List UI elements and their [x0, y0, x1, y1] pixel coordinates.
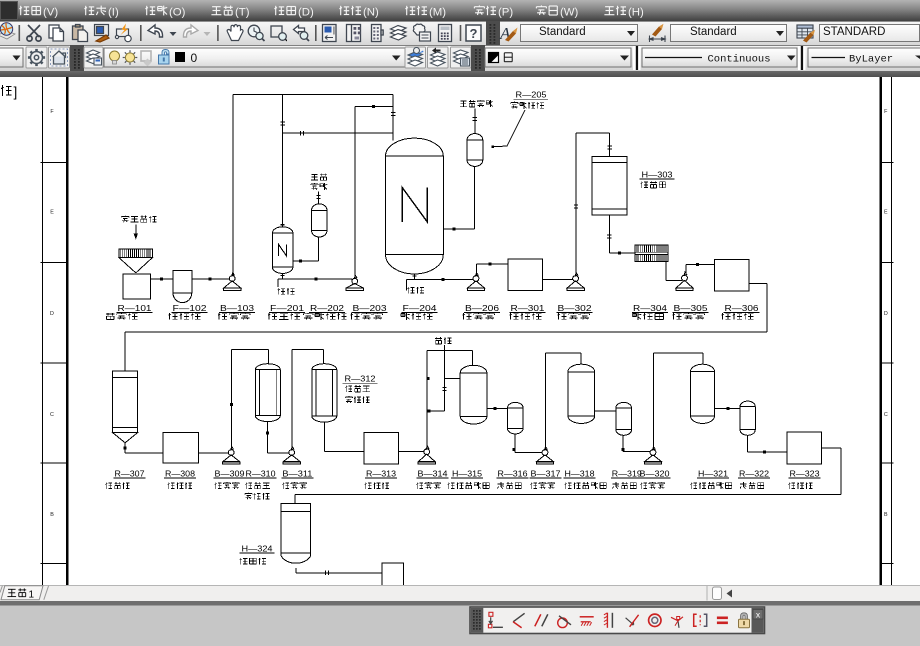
wire F-201 bottom outlet — [282, 273, 284, 278]
svg-text:B—311: B—311 — [282, 468, 312, 478]
wire R-202 outlet to F-201 — [318, 237, 320, 261]
svg-text:R—202: R—202 — [310, 303, 344, 313]
pump B-305 — [682, 275, 688, 281]
svg-text:(D): (D) — [298, 6, 314, 18]
svg-text:ByLayer: ByLayer — [849, 54, 893, 66]
svg-text:?: ? — [470, 26, 478, 41]
svg-text:(M): (M) — [429, 6, 446, 18]
combo STANDARD (table style) — [819, 24, 920, 42]
combo Standard (dim style) — [670, 24, 787, 42]
wire B-314 riser to H-315 — [426, 350, 428, 449]
svg-text:R—323: R—323 — [790, 468, 820, 478]
vessel R-313 (storage tank) — [364, 433, 399, 465]
constraint icon symmetric-brackets — [694, 614, 707, 626]
svg-text:E: E — [50, 209, 54, 215]
document title remnant 框] — [1, 85, 3, 96]
svg-text:B—203: B—203 — [353, 303, 387, 313]
vessel R-205 (air storage tank) — [467, 134, 483, 167]
wire R-323 long line down to H-324 — [822, 447, 841, 449]
standard toolbar row — [0, 21, 920, 45]
separator R-322 — [740, 401, 755, 435]
wire B-203 riser — [354, 106, 356, 278]
pump B-203 — [352, 278, 358, 284]
combo Standard (text style) — [520, 24, 638, 42]
svg-text:D: D — [50, 311, 54, 317]
constraint icon tangent — [558, 616, 571, 628]
hopper hatched band — [119, 249, 153, 258]
vessel R-308 (storage tank) — [163, 433, 199, 463]
svg-text:(V): (V) — [43, 6, 58, 18]
svg-text:R—304: R—304 — [633, 303, 667, 313]
svg-text:R—312: R—312 — [345, 374, 376, 384]
vessel R-323 (storage tank) — [787, 432, 822, 464]
pump B-302 — [573, 276, 579, 282]
zone divider line row 2 — [41, 262, 68, 264]
wire F-201 blowdown 排污 — [278, 278, 283, 280]
evaporator H-318 (falling film evaporator) — [568, 364, 595, 423]
layers / properties toolbar row — [0, 45, 920, 71]
svg-text:R—307: R—307 — [115, 468, 145, 478]
steam label 蒸汽 — [435, 337, 442, 339]
pump B-314 — [424, 449, 430, 455]
svg-text:R—316: R—316 — [498, 468, 528, 478]
svg-text:R—205: R—205 — [516, 90, 547, 100]
wire R-304 outlet to B-305 — [665, 262, 667, 281]
pump B-206 — [473, 276, 479, 282]
wire R-313 to B-314 — [399, 451, 424, 453]
svg-text:]: ] — [14, 85, 18, 100]
wire F-204 to B-206 — [415, 279, 474, 281]
drawing frame left thick border line — [66, 77, 69, 585]
svg-text:Continuous: Continuous — [708, 54, 771, 66]
constraint icon parallel — [535, 614, 548, 626]
crystallizer H-324 — [281, 504, 310, 554]
drawing frame right thin border line — [890, 77, 892, 585]
zone divider line row 5 — [41, 563, 68, 565]
wire drop into F-204 top — [392, 95, 394, 141]
svg-text:H—318: H—318 — [565, 468, 595, 478]
svg-text:H—303: H—303 — [642, 169, 673, 179]
svg-text:H—321: H—321 — [698, 468, 728, 478]
filter R-304 — [635, 245, 668, 261]
wire B-103 riser — [232, 95, 234, 276]
pump B-317 — [542, 450, 548, 456]
wire overhead line A — [233, 94, 393, 96]
wire B-311 riser to R-312 — [291, 350, 293, 450]
wire F-201 to B-203 — [283, 278, 353, 280]
layout tab 布局1 — [1, 586, 43, 600]
svg-text:E: E — [884, 209, 888, 215]
wire R-310 outlet to B-311 — [267, 422, 269, 453]
constraint icon equal — [717, 617, 728, 625]
constraint icon coincident — [488, 612, 503, 628]
wire into H-303 top — [609, 133, 611, 156]
separator R-319 — [616, 402, 632, 435]
product box — [382, 563, 403, 586]
hopper funnel — [119, 258, 153, 273]
svg-text:H—315: H—315 — [452, 468, 482, 478]
wire R-306 long return line to R-307 — [749, 283, 767, 285]
svg-text:H—324: H—324 — [242, 543, 273, 553]
feed arrow — [135, 225, 137, 239]
vessel R-301 (storage tank) — [508, 259, 542, 291]
svg-text:(T): (T) — [235, 6, 250, 18]
column R-310 (anion exchange column) — [255, 364, 280, 422]
svg-text:B: B — [884, 512, 888, 518]
wire R-301 to B-302 — [543, 279, 573, 281]
svg-text:B—317: B—317 — [531, 468, 561, 478]
constraint icon fix-lock — [739, 613, 750, 628]
svg-text:R—308: R—308 — [165, 468, 195, 478]
wire F-201 feed riser — [282, 95, 284, 227]
wire R-202 feed — [318, 192, 320, 204]
vessel F-201 (seed tank) — [272, 227, 293, 274]
wire R-101 to F-102 — [151, 278, 174, 280]
wire H-318 to R-319 — [595, 410, 616, 412]
letter N in F-204 — [402, 188, 427, 222]
svg-text:R—301: R—301 — [511, 303, 545, 313]
svg-text:B—103: B—103 — [220, 303, 254, 313]
无菌空气 label at R-205 — [460, 100, 466, 102]
pump B-103 — [229, 276, 235, 282]
wire R-205 feed — [474, 109, 476, 134]
vessel F-204 (fermenter) — [385, 138, 443, 156]
svg-text:R—319: R—319 — [612, 468, 642, 478]
constraint icon collinear — [580, 617, 594, 626]
svg-text:R—322: R—322 — [739, 468, 769, 478]
svg-text:F—102: F—102 — [173, 303, 207, 313]
svg-text:B—305: B—305 — [674, 303, 708, 313]
svg-text:(P): (P) — [498, 6, 513, 18]
svg-text:C: C — [884, 412, 888, 418]
svg-text:B—320: B—320 — [640, 468, 670, 478]
constraint icon symmetric — [626, 615, 639, 627]
letter N in F-201 — [279, 244, 287, 256]
svg-text:1: 1 — [29, 590, 35, 601]
svg-text:B—302: B—302 — [558, 303, 592, 313]
wire R-322 outlet to R-323 — [746, 435, 748, 452]
svg-text:C: C — [50, 412, 54, 418]
svg-text:B: B — [50, 512, 54, 518]
zone divider line row 1 — [41, 161, 68, 163]
pump B-311 — [289, 450, 295, 456]
wire B-309 riser to R-310 — [231, 350, 233, 450]
svg-text:B—309: B—309 — [215, 468, 245, 478]
leader line R-205 — [493, 110, 526, 147]
vessel R-306 (storage tank) — [715, 259, 750, 290]
vessel R-202 (air storage tank) — [311, 204, 327, 237]
evaporator H-315 (falling film evaporator) — [460, 365, 487, 424]
wire B-317 riser to H-318 — [544, 353, 546, 449]
svg-text:(N): (N) — [363, 6, 379, 18]
svg-text:F—201: F—201 — [270, 303, 304, 313]
wire R-308 to B-309 — [199, 452, 229, 454]
drawing frame right thick border line — [880, 77, 883, 585]
wire B-302 riser to H-303 — [575, 133, 577, 275]
svg-text:R—310: R—310 — [246, 468, 276, 478]
wire B-320 riser to H-321 — [652, 353, 654, 449]
constraint icon smooth — [671, 617, 683, 628]
svg-text:D: D — [884, 311, 888, 317]
wire R-316 outlet to B-317 — [514, 434, 516, 453]
svg-text:R—101: R—101 — [118, 303, 152, 313]
svg-text:R—306: R—306 — [725, 303, 759, 313]
wire B-206 discharge to R-301 — [476, 264, 478, 275]
zone divider line row 4 — [41, 462, 68, 464]
vessel F-102 (saccharification kettle) — [173, 271, 192, 294]
svg-text:(O): (O) — [169, 6, 186, 18]
floating geometric constraints toolbar — [470, 607, 765, 634]
wire R-312 outlet to R-313 — [324, 422, 326, 451]
wire R-307 outlet to R-308 — [124, 442, 126, 453]
wire F-204 bottom outlet — [414, 274, 416, 280]
pump B-309 — [228, 450, 234, 456]
wire H-321 to R-322 — [715, 407, 741, 409]
wire F-102 to B-103 — [192, 278, 230, 280]
wire H-303 outlet to R-304 — [608, 215, 610, 253]
wire steam line — [444, 345, 446, 411]
wire B-305 discharge to R-306 — [685, 265, 687, 276]
constraint icon vertical — [604, 613, 613, 628]
wire H-315 to R-316 — [487, 407, 508, 409]
svg-text:(W): (W) — [560, 6, 579, 18]
constraint icon concentric — [649, 614, 661, 626]
wire H-324 outlet to product box — [295, 568, 297, 573]
wire R-205 outlet into F-204 — [474, 166, 476, 229]
svg-text:F—204: F—204 — [403, 303, 437, 313]
pump B-320 — [650, 450, 656, 456]
wire line C — [283, 132, 394, 134]
menu bar — [0, 0, 920, 21]
无菌空气 label at R-202 — [311, 173, 317, 175]
evaporator H-321 (falling film evaporator) — [691, 364, 715, 423]
constraint icon perpendicular — [513, 613, 525, 628]
svg-text:0: 0 — [191, 51, 198, 65]
wire R-319 outlet to B-320 — [622, 435, 624, 451]
heat exchanger H-303 (preheater) — [592, 157, 627, 216]
drawing frame left thin border line — [42, 77, 44, 585]
column R-307 (decolorizing column) — [113, 371, 138, 433]
vessel R-101 (mixing tank) — [123, 274, 151, 299]
column R-312 (cation exchange column) — [312, 364, 337, 422]
svg-text:R—313: R—313 — [366, 468, 396, 478]
separator R-316 — [507, 402, 523, 434]
svg-text:B—206: B—206 — [465, 303, 499, 313]
wire line B — [355, 105, 393, 107]
svg-text:(I): (I) — [108, 6, 119, 18]
svg-text:B—314: B—314 — [418, 468, 448, 478]
feed label 若干原料 — [124, 215, 126, 218]
wire F-204 blowdown 排污 — [407, 279, 415, 281]
svg-text:(H): (H) — [628, 6, 644, 18]
zone divider line row 3 — [41, 362, 68, 364]
canvas — [0, 71, 920, 77]
